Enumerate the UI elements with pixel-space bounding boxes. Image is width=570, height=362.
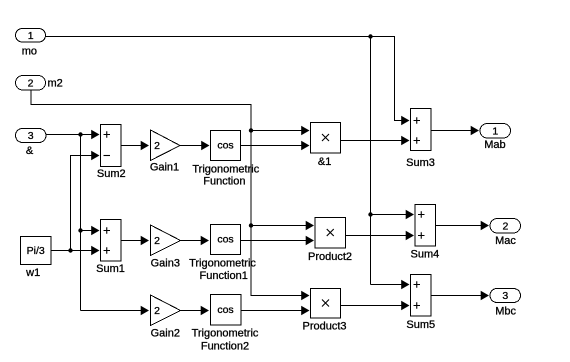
svg-text:Function2: Function2 [201, 341, 249, 353]
sum block Sum5 [411, 275, 432, 317]
svg-text:cos: cos [217, 234, 233, 246]
sum block Sum1 [101, 220, 122, 262]
pin sign plus Sum3 in2 [414, 137, 421, 144]
svg-text:Mac: Mac [495, 235, 516, 247]
wire port3 to Sum2 in1 [46, 134, 93, 136]
svg-text:cos: cos [217, 140, 233, 152]
pin sign plus Sum5 in2 [414, 302, 421, 309]
trig block Trigonometric Function [211, 131, 241, 161]
arrowhead into Product3 in2 [301, 306, 309, 315]
wire product &1 to Sum3 in2 [341, 140, 403, 142]
wire Gain1 to cos [180, 145, 203, 147]
pin sign plus Sum4 in2 [418, 232, 425, 239]
svg-text:Mbc: Mbc [495, 306, 516, 318]
pin sign plus Sum3 in1 [414, 117, 421, 124]
arrowhead into Product2 in2 [306, 236, 314, 245]
product block Product2 [315, 218, 346, 249]
svg-text:2: 2 [154, 140, 160, 152]
constant block Pi/3 [21, 237, 52, 265]
junction mo at Sum4 in1 [368, 212, 372, 216]
junction port3 at branch [78, 132, 82, 136]
arrowhead into Product3 in1 [301, 291, 309, 300]
svg-text:2: 2 [28, 77, 34, 89]
arrowhead into Sum5 in1 [401, 280, 409, 289]
arrowhead into Gain1 [141, 141, 149, 150]
svg-text:Sum5: Sum5 [406, 319, 435, 331]
svg-text:Sum2: Sum2 [97, 168, 126, 180]
arrowhead into Product2 in1 [306, 221, 314, 230]
svg-text:1: 1 [492, 125, 498, 137]
svg-text:Gain3: Gain3 [151, 258, 180, 270]
gain block Gain1 [151, 130, 181, 161]
arrowhead into Sum1 in1 [91, 226, 99, 235]
arrowhead into outport Mab [471, 126, 479, 135]
arrowhead into cos2 [201, 306, 209, 315]
arrowhead into Sum5 in2 [401, 301, 409, 310]
svg-text:Pi/3: Pi/3 [27, 245, 45, 257]
wire Sum4 to outport Mac [436, 225, 483, 227]
arrowhead into Sum4 in2 [406, 231, 414, 240]
svg-text:2: 2 [154, 235, 160, 247]
svg-text:3: 3 [28, 130, 34, 142]
arrowhead into Gain3 [141, 236, 149, 245]
svg-text:Trigonometric: Trigonometric [192, 164, 259, 176]
wire w1 to Sum1 in2 [51, 250, 93, 252]
outport 2 Mac [490, 219, 521, 234]
inport 1 mo [16, 29, 46, 43]
icon cross Product3 [322, 300, 329, 307]
arrowhead into Sum3 in2 [401, 136, 409, 145]
gain block Gain2 [151, 295, 181, 326]
wire w1 branch to Sum2 in2 [71, 156, 94, 251]
svg-text:Sum4: Sum4 [411, 249, 440, 261]
sum block Sum2 [101, 125, 122, 167]
pin sign plus Sum5 in1 [414, 281, 421, 288]
junction mo at branch [368, 34, 372, 38]
arrowhead into Sum2 in2 [91, 151, 99, 160]
svg-text:Gain2: Gain2 [151, 328, 180, 340]
svg-text:Product3: Product3 [302, 321, 346, 333]
wire Sum5 to outport Mbc [431, 295, 482, 297]
icon cross Product2 [327, 229, 334, 236]
pin sign plus Sum1 in2 [104, 247, 111, 254]
pin sign plus Sum4 in1 [418, 211, 425, 218]
junction m2 at product &1 in1 [249, 128, 253, 132]
svg-text:Product2: Product2 [308, 251, 352, 263]
wire port3 to Sum1 in1 [81, 230, 94, 232]
svg-text:3: 3 [502, 290, 508, 302]
outport 3 Mbc [490, 289, 521, 303]
wire port3 to Gain2 [81, 310, 143, 312]
wire m2 to product &1 in1 [251, 130, 303, 132]
svg-text:Function: Function [203, 176, 245, 188]
icon cross product &1 [322, 134, 329, 141]
pin sign plus Sum2 in1 [104, 131, 111, 138]
outport 1 Mab [480, 124, 511, 139]
svg-text:2: 2 [154, 305, 160, 317]
svg-text:Gain1: Gain1 [150, 162, 179, 174]
junction port3 at Sum1 in1 [78, 228, 82, 232]
junction m2 at Product2 in1 [249, 223, 253, 227]
junction w1 at branch [68, 248, 72, 252]
trig block Trigonometric Function1 [211, 225, 241, 255]
svg-text:Trigonometric: Trigonometric [192, 328, 259, 340]
svg-text:mo: mo [22, 45, 37, 57]
svg-text:&: & [26, 145, 34, 157]
svg-text:Sum1: Sum1 [96, 263, 125, 275]
wire m2 down and across [31, 91, 303, 296]
wire mo to Sum4 in1 [371, 214, 408, 216]
sum block Sum3 [411, 109, 432, 151]
pin sign plus Sum1 in1 [104, 227, 111, 234]
arrowhead into Sum4 in1 [406, 210, 414, 219]
wire Gain3 to cos1 [181, 240, 203, 242]
arrowhead into cos [201, 141, 209, 150]
wire Product3 to Sum5 in2 [341, 305, 403, 307]
svg-text:Mab: Mab [484, 139, 505, 151]
wire Sum2 to Gain1 [121, 145, 143, 147]
svg-text:Sum3: Sum3 [406, 157, 435, 169]
wire Sum1 to Gain3 [121, 240, 143, 242]
pin sign minus Sum2 in2 [104, 155, 111, 157]
wire Product2 to Sum4 in2 [346, 235, 408, 237]
trig block Trigonometric Function2 [211, 295, 242, 326]
wire mo branch vertical [370, 37, 372, 285]
wire Gain2 to cos2 [181, 310, 203, 312]
arrowhead into Gain2 [141, 306, 149, 315]
product block &1 [311, 123, 341, 154]
product block Product3 [311, 289, 341, 319]
svg-text:&1: &1 [318, 156, 331, 168]
svg-text:1: 1 [28, 30, 34, 42]
svg-text:m2: m2 [48, 77, 63, 89]
svg-text:Function1: Function1 [200, 270, 248, 282]
inport 2 m2 [16, 76, 46, 91]
wire m2 to Product2 in1 [251, 225, 307, 227]
arrowhead into Sum3 in1 [401, 116, 409, 125]
wire cos2 to Product3 in2 [241, 310, 303, 312]
wire cos1 to Product2 in2 [241, 240, 308, 242]
arrowhead into product &1 in2 [301, 141, 309, 150]
arrowhead into cos1 [201, 236, 209, 245]
arrowhead into outport Mbc [481, 291, 489, 300]
wire mo to Sum5 in1 [371, 284, 403, 286]
arrowhead into product &1 in1 [301, 126, 309, 135]
arrowhead into Sum1 in2 [91, 246, 99, 255]
sum block Sum4 [415, 205, 436, 247]
svg-text:2: 2 [502, 220, 508, 232]
svg-text:cos: cos [217, 304, 233, 316]
wire port3 branch vertical [80, 135, 82, 311]
wire Sum3 to outport Mab [431, 130, 472, 132]
arrowhead into outport Mac [481, 221, 489, 230]
arrowhead into Sum2 in1 [91, 130, 99, 139]
svg-text:w1: w1 [25, 267, 40, 279]
gain block Gain3 [151, 225, 181, 256]
svg-text:Trigonometric: Trigonometric [189, 258, 256, 270]
wire mo horizontal [46, 37, 403, 121]
inport 3 & [16, 129, 47, 143]
wire cos to product &1 in2 [241, 145, 303, 147]
